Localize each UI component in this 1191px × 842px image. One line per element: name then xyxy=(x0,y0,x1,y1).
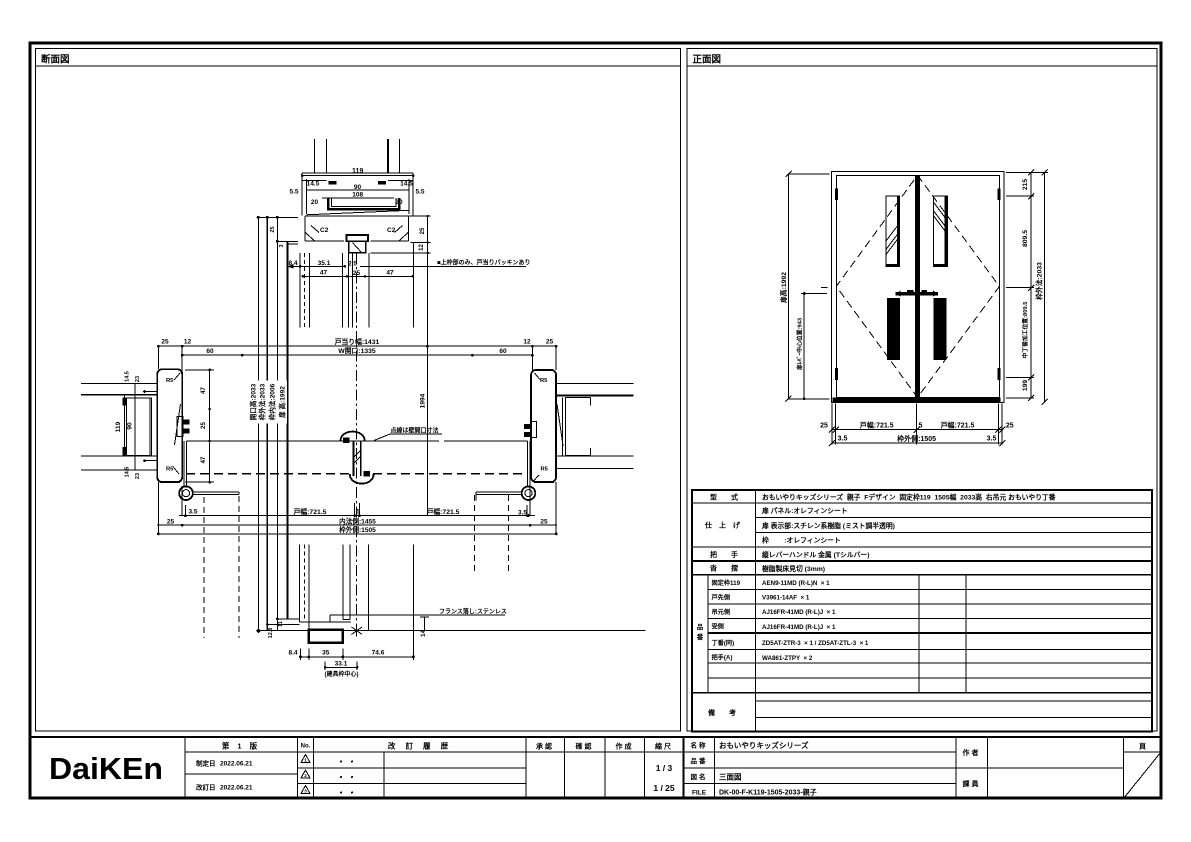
svg-text:三面図: 三面図 xyxy=(719,773,742,782)
svg-text:確認: 確認 xyxy=(576,742,594,751)
door stop block at centre xyxy=(346,235,368,241)
svg-text:14.5: 14.5 xyxy=(400,180,413,187)
svg-text:DaiKEn: DaiKEn xyxy=(49,751,163,786)
svg-text:12: 12 xyxy=(419,244,425,251)
right jamb anchor strap xyxy=(557,404,563,446)
svg-text:60: 60 xyxy=(499,348,507,355)
svg-text:固定枠119: 固定枠119 xyxy=(712,579,741,587)
right panel header line xyxy=(687,65,1157,67)
svg-text:14.5: 14.5 xyxy=(125,467,131,478)
right wall lines xyxy=(556,384,634,469)
bottom dim line 1 (25/721.5/5/721.5/25) xyxy=(832,429,1002,431)
svg-text:作成: 作成 xyxy=(616,742,634,751)
svg-text:25: 25 xyxy=(270,226,276,232)
svg-text:47: 47 xyxy=(386,269,394,276)
svg-text:AEN9-11MD (R-L)N × 1: AEN9-11MD (R-L)N × 1 xyxy=(762,580,830,587)
meeting stile (center vertical bar) xyxy=(915,175,920,397)
bottom step profile xyxy=(299,615,351,622)
svg-text:V3961-14AF × 1: V3961-14AF × 1 xyxy=(762,595,810,602)
packing blocks xyxy=(328,181,336,185)
svg-text:25: 25 xyxy=(420,227,426,234)
left wall studs xyxy=(124,395,126,456)
svg-text:扉 表示部:スチレン系樹脂 (ミスト調半透明): 扉 表示部:スチレン系樹脂 (ミスト調半透明) xyxy=(762,521,895,530)
svg-text:C2: C2 xyxy=(320,227,329,234)
svg-text:課員: 課員 xyxy=(963,779,981,788)
svg-text:33.1: 33.1 xyxy=(335,661,348,668)
right dim line (215/809.5/809.5/199) xyxy=(1006,173,1048,398)
svg-text:仕上げ: 仕上げ xyxy=(704,521,747,530)
head dim 119 xyxy=(302,175,413,177)
rotated chain labels xyxy=(250,381,287,424)
left view panel frame xyxy=(36,49,681,732)
plan bottom dim row 戸幅 xyxy=(179,515,535,517)
svg-text:3.5: 3.5 xyxy=(838,436,848,443)
svg-text:枠外法:2033: 枠外法:2033 xyxy=(258,383,267,420)
svg-text:戸幅:721.5: 戸幅:721.5 xyxy=(294,507,327,516)
svg-text:35: 35 xyxy=(322,650,330,657)
right pivot hinge xyxy=(522,486,536,500)
bottom dim line 8.4/35/74.6 xyxy=(301,656,414,658)
floor line xyxy=(257,630,646,632)
svg-text:丁番(同): 丁番(同) xyxy=(712,639,735,647)
wall leader dots xyxy=(144,392,157,461)
left panel header line xyxy=(36,65,681,67)
svg-text:承認: 承認 xyxy=(536,742,554,751)
left vision window xyxy=(886,196,900,266)
14.5 dims xyxy=(302,179,413,181)
svg-text:AJ16FR-41MD (R-L)J × 1: AJ16FR-41MD (R-L)J × 1 xyxy=(762,609,836,616)
extension lines above jambs xyxy=(158,346,556,372)
right vision window xyxy=(934,196,948,266)
svg-text:改訂日: 改訂日 xyxy=(196,783,216,792)
12 / 25 dims right of band xyxy=(371,216,431,253)
svg-text:14.5: 14.5 xyxy=(125,371,131,382)
svg-text:R5: R5 xyxy=(166,467,174,473)
svg-text:品番: 品番 xyxy=(691,756,708,765)
svg-text:C2: C2 xyxy=(387,227,396,234)
chain line 枠外法 xyxy=(266,217,268,630)
chain top ticks xyxy=(257,216,299,218)
dim 943 handle centre line xyxy=(801,294,827,399)
title block vertical dividers xyxy=(185,737,1124,798)
threshold shoe xyxy=(309,630,343,643)
svg-text:縮尺: 縮尺 xyxy=(655,742,673,751)
svg-text:5.5: 5.5 xyxy=(289,188,298,195)
right window glass hatch xyxy=(934,203,948,221)
svg-text:フランス落し:ステンレス: フランス落し:ステンレス xyxy=(439,607,507,615)
svg-text:12: 12 xyxy=(184,339,192,346)
svg-text:点線は壁開口寸法: 点線は壁開口寸法 xyxy=(391,426,439,434)
head frame body band xyxy=(305,216,409,241)
dim 33.1 xyxy=(325,662,357,671)
left jamb anchor strap xyxy=(175,404,181,445)
chamfer marks C2 xyxy=(305,232,409,241)
revision triangles xyxy=(301,755,310,794)
left kick plate xyxy=(887,298,900,360)
svg-text:戸幅:721.5: 戸幅:721.5 xyxy=(941,420,975,429)
svg-text:25: 25 xyxy=(820,422,828,429)
svg-text:備考: 備考 xyxy=(708,708,750,717)
svg-text:戸幅:721.5: 戸幅:721.5 xyxy=(427,507,460,516)
svg-text:扉ﾚﾊﾞｰ中心位置:943: 扉ﾚﾊﾞｰ中心位置:943 xyxy=(796,317,804,371)
svg-text:2022.06.21: 2022.06.21 xyxy=(220,761,253,768)
chain line 開口高 xyxy=(257,217,259,630)
svg-text:47: 47 xyxy=(200,387,207,394)
bottom dim extension lines xyxy=(832,404,1002,445)
dim 枠外法:2033 line xyxy=(1044,173,1046,402)
svg-text:47: 47 xyxy=(200,456,207,463)
diamond dashed outline xyxy=(836,175,999,397)
svg-text:12.8: 12.8 xyxy=(268,628,274,639)
left door leaf xyxy=(187,440,439,442)
svg-text:FILE: FILE xyxy=(692,790,707,797)
svg-text:25: 25 xyxy=(161,339,169,346)
left profile small dims xyxy=(267,619,299,625)
lever handles bar xyxy=(896,292,939,295)
svg-text:25: 25 xyxy=(200,422,207,429)
svg-text:沓摺: 沓摺 xyxy=(709,564,752,573)
door top channel (thick U) xyxy=(328,198,399,210)
svg-text:25: 25 xyxy=(1006,422,1014,429)
svg-text:枠外側:1505: 枠外側:1505 xyxy=(339,525,376,534)
svg-text:品: 品 xyxy=(697,622,704,631)
svg-text:47: 47 xyxy=(320,269,328,276)
svg-text:扉 高:1992: 扉 高:1992 xyxy=(277,386,286,418)
front view: door frame inner xyxy=(836,175,999,397)
svg-text:DK-00-F-K119-1505-2033-親子: DK-00-F-K119-1505-2033-親子 xyxy=(719,788,817,797)
svg-text:3.5: 3.5 xyxy=(188,509,197,516)
svg-text:枠 :オレフィンシート: 枠 :オレフィンシート xyxy=(761,536,841,545)
svg-text:14: 14 xyxy=(421,630,427,637)
dim 1994 vertical xyxy=(426,346,428,515)
plan bottom dim row 1455 xyxy=(157,524,557,526)
hinge brackets on jamb inner faces xyxy=(177,417,183,437)
svg-text:WA861-ZTPY × 2: WA861-ZTPY × 2 xyxy=(762,655,813,662)
svg-text:3: 3 xyxy=(279,244,285,247)
svg-text:23: 23 xyxy=(135,376,141,382)
front view: door frame outer xyxy=(831,171,1004,402)
wall stud lines above head xyxy=(315,139,400,173)
title block horizontal lines xyxy=(185,751,1161,753)
svg-text:20: 20 xyxy=(311,199,319,206)
left wall lines xyxy=(81,384,157,470)
right 14 dim xyxy=(420,617,429,631)
svg-text:名称: 名称 xyxy=(691,741,708,750)
svg-text:改 訂 履 歴: 改 訂 履 歴 xyxy=(388,741,452,751)
svg-text:3.5: 3.5 xyxy=(518,509,527,516)
svg-text:枠外法:2033: 枠外法:2033 xyxy=(1035,262,1044,301)
svg-text:内法側:1455: 内法側:1455 xyxy=(339,517,376,526)
right wall C-channel xyxy=(562,397,590,455)
svg-text:25: 25 xyxy=(546,339,554,346)
head jamb outer profile xyxy=(302,172,413,174)
plan section view xyxy=(81,345,634,638)
svg-text:5.5: 5.5 xyxy=(415,188,424,195)
extension lines to 1431 dim xyxy=(414,216,428,346)
spec table horizontal lines xyxy=(692,502,1152,504)
door leaf section lines below head xyxy=(300,253,369,328)
svg-text:おもいやりキッズシリーズ: おもいやりキッズシリーズ xyxy=(719,740,809,750)
svg-text:215: 215 xyxy=(1022,179,1029,191)
svg-text:1 / 3: 1 / 3 xyxy=(656,763,673,773)
svg-text:受側: 受側 xyxy=(712,623,724,631)
svg-text:把手(A): 把手(A) xyxy=(712,654,733,662)
jamb depth dims 47/25/47 xyxy=(185,369,214,484)
door bottom rail (thick) xyxy=(833,398,1001,403)
svg-text:1994: 1994 xyxy=(420,393,427,408)
sloped soffit line xyxy=(306,210,409,215)
left window glass hatch xyxy=(886,223,900,241)
dashed leaf back line xyxy=(186,473,350,475)
svg-text:23: 23 xyxy=(135,473,141,479)
centre line of meeting stile xyxy=(356,253,358,630)
svg-text:把手: 把手 xyxy=(710,550,752,559)
svg-text:おもいやりキッズシリーズ 親子 Fデザイン 固定枠11: おもいやりキッズシリーズ 親子 Fデザイン 固定枠119 1505幅 2033高… xyxy=(762,493,1056,502)
svg-text:枠外側:1505: 枠外側:1505 xyxy=(897,434,936,443)
svg-text:枠内法:2006: 枠内法:2006 xyxy=(268,383,277,420)
svg-text:図名: 図名 xyxy=(691,772,708,781)
spec table outer xyxy=(692,490,1152,732)
door leaf section lines above sill xyxy=(299,544,368,630)
svg-text:縦レバーハンドル 金属 (Tシルバー): 縦レバーハンドル 金属 (Tシルバー) xyxy=(762,550,869,559)
svg-text:2022.06.21: 2022.06.21 xyxy=(220,785,253,792)
left jamb xyxy=(157,369,182,482)
svg-text:25: 25 xyxy=(167,518,175,525)
vertical dimension chain 2033/2033/2006/1992 xyxy=(248,216,298,631)
svg-text:12: 12 xyxy=(523,339,531,346)
svg-text:119: 119 xyxy=(115,421,122,432)
right jamb xyxy=(531,370,556,482)
svg-text:5: 5 xyxy=(919,422,923,429)
svg-text:扉 パネル:オレフィンシート: 扉 パネル:オレフィンシート xyxy=(762,506,848,515)
svg-text:中丁番加工位置:809.5: 中丁番加工位置:809.5 xyxy=(1021,301,1029,359)
svg-text:吊元側: 吊元側 xyxy=(712,608,731,616)
title block top line xyxy=(30,736,1161,738)
dim 扉高:1992 line xyxy=(788,174,829,399)
astragal bottom cap xyxy=(350,474,374,484)
svg-text:1 / 25: 1 / 25 xyxy=(653,783,675,793)
svg-text:(建具枠中心): (建具枠中心) xyxy=(325,670,359,678)
svg-text:8.4: 8.4 xyxy=(288,650,297,657)
svg-text:作者: 作者 xyxy=(963,748,981,757)
right kick plate xyxy=(934,298,947,360)
svg-text:正面図: 正面図 xyxy=(693,55,722,66)
dim row 1431 xyxy=(157,337,557,347)
extension lines below jambs xyxy=(158,482,556,534)
centre marks at diamond side vertices xyxy=(821,286,1015,288)
svg-text:戸幅:721.5: 戸幅:721.5 xyxy=(860,420,894,429)
revision date dots xyxy=(340,761,353,794)
right door leaf xyxy=(448,440,528,442)
svg-text:119: 119 xyxy=(352,168,363,175)
hinge marks left stile xyxy=(835,188,838,200)
chain line 枠内法 xyxy=(276,217,278,630)
meeting stile astragal top cap xyxy=(341,432,365,441)
svg-text:戸先側: 戸先側 xyxy=(712,593,731,601)
svg-text:60: 60 xyxy=(206,348,214,355)
svg-text:断面図: 断面図 xyxy=(41,54,70,66)
title block xyxy=(30,737,1161,798)
svg-text:R5: R5 xyxy=(166,378,174,384)
svg-text:開口高:2033: 開口高:2033 xyxy=(248,383,257,420)
chain line 扉高 xyxy=(287,241,289,619)
svg-text:制定日: 制定日 xyxy=(196,759,216,768)
hinge marks right stile xyxy=(997,188,1000,200)
svg-text:第 1 版: 第 1 版 xyxy=(222,741,260,751)
svg-text:扉高:1992: 扉高:1992 xyxy=(779,272,788,303)
svg-text:R5: R5 xyxy=(541,467,549,473)
svg-text:型式: 型式 xyxy=(710,492,752,501)
section view: head detail xyxy=(287,139,530,630)
svg-text:ZD5AT-ZTR-3 × 1 / ZD5AT-ZTL-3: ZD5AT-ZTR-3 × 1 / ZD5AT-ZTL-3 × 1 xyxy=(762,640,869,647)
svg-text:樹脂製床見切 (3mm): 樹脂製床見切 (3mm) xyxy=(762,564,825,573)
svg-text:809.5: 809.5 xyxy=(1022,230,1029,247)
svg-text:5: 5 xyxy=(356,509,360,516)
page cell diagonal xyxy=(1124,753,1161,799)
dim row 1335 xyxy=(181,346,534,356)
bottom dim line 2 (3.5/1505/3.5) xyxy=(832,442,1002,444)
svg-text:3.5: 3.5 xyxy=(987,436,997,443)
svg-text:No.: No. xyxy=(301,744,311,750)
specification table xyxy=(692,490,1152,732)
svg-text:14.5: 14.5 xyxy=(307,180,320,187)
left pivot hinge xyxy=(179,486,193,500)
svg-text:頁: 頁 xyxy=(1139,743,1146,751)
centre asterisk xyxy=(352,625,363,636)
section view: sill / bottom detail xyxy=(256,544,646,677)
svg-text:25: 25 xyxy=(540,518,548,525)
svg-text:R5: R5 xyxy=(540,378,548,384)
plan bottom dim row 1505 xyxy=(157,533,557,535)
open-position dashed projections xyxy=(204,496,239,638)
right jamb thick bottom edge xyxy=(534,481,554,483)
svg-text:11: 11 xyxy=(278,621,284,627)
right view panel frame xyxy=(687,49,1157,732)
leaf top dashes near centre xyxy=(444,440,448,442)
svg-text:AJ16FR-41MD (R-L)J × 1: AJ16FR-41MD (R-L)J × 1 xyxy=(762,624,836,631)
svg-text:74.6: 74.6 xyxy=(372,650,385,657)
svg-text:番: 番 xyxy=(696,632,704,641)
svg-text:■上枠部のみ、戸当りパッキンあり: ■上枠部のみ、戸当りパッキンあり xyxy=(437,258,530,266)
svg-text:35.1: 35.1 xyxy=(318,260,331,267)
svg-text:W開口:1335: W開口:1335 xyxy=(338,346,376,355)
svg-text:戸当り幅:1431: 戸当り幅:1431 xyxy=(335,337,380,346)
svg-text:199: 199 xyxy=(1022,380,1029,392)
astragal S-bar xyxy=(354,441,361,476)
spec table vertical lines xyxy=(755,490,757,732)
svg-text:90: 90 xyxy=(127,422,134,430)
left jamb thick bottom edge xyxy=(160,481,180,483)
